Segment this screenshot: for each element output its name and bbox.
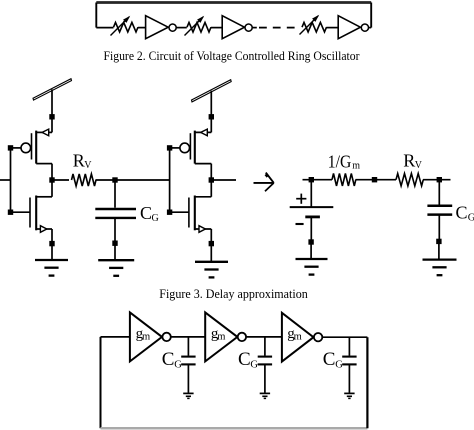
- svg-text:m: m: [142, 331, 150, 342]
- svg-text:C: C: [162, 349, 175, 370]
- svg-text:Figure 2. Circuit of Voltage C: Figure 2. Circuit of Voltage Controlled …: [104, 48, 361, 63]
- svg-text:m: m: [352, 160, 360, 171]
- svg-text:C: C: [140, 203, 152, 223]
- svg-text:C: C: [238, 349, 251, 370]
- svg-text:G: G: [174, 359, 182, 370]
- svg-text:G: G: [250, 359, 258, 370]
- svg-text:Figure 3. Delay approximation: Figure 3. Delay approximation: [159, 286, 308, 301]
- svg-text:G: G: [335, 359, 343, 370]
- svg-text:G: G: [152, 213, 159, 224]
- svg-text:C: C: [456, 202, 468, 222]
- svg-text:G: G: [468, 213, 474, 224]
- svg-text:R: R: [73, 150, 85, 170]
- svg-text:C: C: [323, 349, 336, 370]
- svg-text:V: V: [84, 160, 92, 171]
- svg-text:V: V: [415, 160, 423, 171]
- svg-text:m: m: [294, 332, 302, 343]
- svg-text:m: m: [217, 331, 225, 342]
- svg-text:R: R: [403, 150, 415, 170]
- svg-text:1/G: 1/G: [328, 152, 352, 172]
